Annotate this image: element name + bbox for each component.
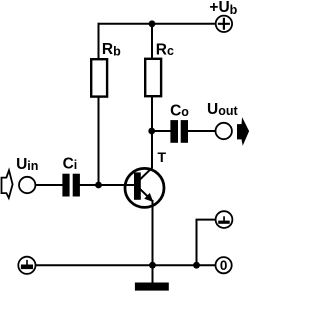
svg-text:Uin: Uin — [16, 156, 38, 173]
svg-text:Co: Co — [170, 103, 189, 120]
resistor Rb — [91, 59, 107, 96]
wire collector (Rc bottom to transistor) — [140, 97, 152, 180]
wire Rc top stem — [151, 23, 153, 59]
wire Rb bottom stem — [98, 97, 100, 187]
ground — [135, 283, 169, 291]
resistor Rc — [145, 59, 161, 96]
terminal Uout — [216, 123, 232, 139]
wire Ci to base — [80, 184, 136, 186]
wire ground stem — [152, 264, 154, 284]
svg-text:Rc: Rc — [156, 41, 174, 58]
wire top supply rail — [98, 23, 216, 25]
terminal +Ub — [216, 16, 232, 32]
svg-text:Uout: Uout — [207, 101, 238, 118]
node base / Rb junction — [95, 182, 102, 189]
wire bottom rail — [36, 264, 215, 266]
svg-text:Ci: Ci — [63, 156, 78, 173]
node emitter / rail junction — [149, 262, 156, 269]
svg-text:0: 0 — [220, 258, 228, 273]
wire Rb top stem — [98, 23, 100, 59]
terminal earth left — [18, 257, 35, 274]
wire Co right to Uout — [188, 130, 216, 132]
output arrow — [237, 117, 249, 146]
terminal earth right — [216, 211, 233, 228]
node rail / right earth junction — [193, 262, 200, 269]
wire Co left — [151, 130, 171, 132]
terminal Uin — [19, 177, 35, 193]
svg-text:+Ub: +Ub — [209, 0, 237, 17]
wire right earth branch — [197, 220, 216, 266]
capacitor Co — [170, 120, 188, 143]
capacitor Ci — [62, 174, 79, 197]
transistor T (NPN) — [125, 168, 164, 207]
svg-text:Rb: Rb — [102, 41, 121, 58]
svg-text:T: T — [158, 149, 167, 165]
terminal 0 — [216, 257, 232, 273]
node supply rail / Rc junction — [149, 20, 156, 27]
wire emitter vertical — [152, 200, 154, 266]
wire Uin to Ci — [36, 184, 64, 186]
input arrow — [2, 170, 13, 198]
node collector / Co junction — [148, 128, 155, 135]
